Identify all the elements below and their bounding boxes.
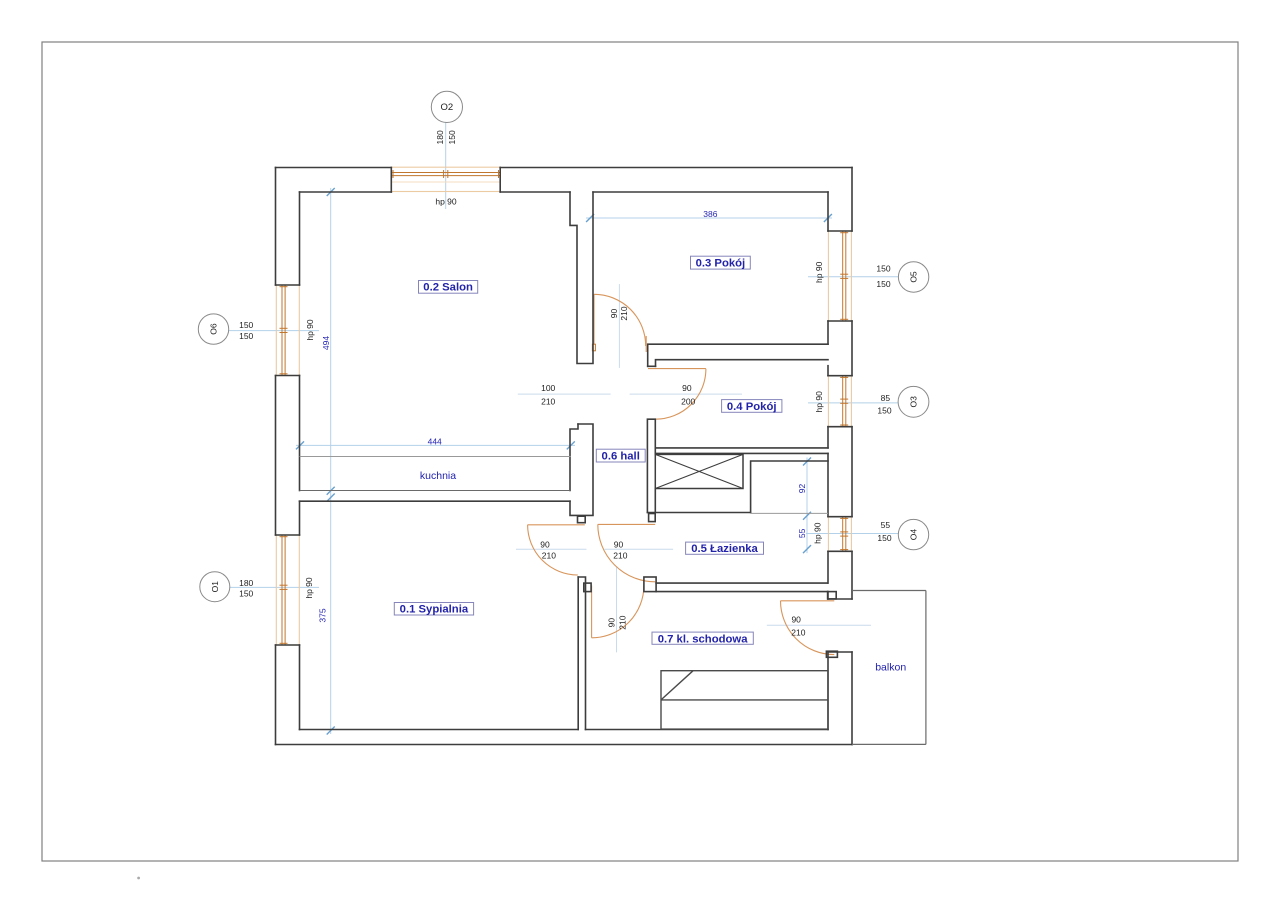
svg-text:hp 90: hp 90 — [812, 522, 822, 544]
svg-text:kuchnia: kuchnia — [420, 470, 456, 482]
window O3 center line — [808, 402, 898, 404]
svg-text:375: 375 — [318, 608, 328, 622]
label 0.6 hall — [596, 449, 645, 462]
wall kuchnia/Sypialnia bottom face — [300, 500, 571, 502]
svg-text:hp 90: hp 90 — [435, 197, 457, 207]
door dim line 90/210 (kl. schodowa door) — [616, 567, 618, 652]
dim line 92 — [806, 458, 808, 520]
door Lazienka leaf — [598, 523, 655, 525]
stairs — [661, 671, 828, 729]
svg-text:O1: O1 — [210, 581, 220, 593]
wall hall/0.4 strip — [647, 419, 655, 512]
door 0.4 Pokoj arc — [656, 369, 706, 419]
window O2 center line — [445, 123, 447, 210]
dim line 444 (kuchnia width) — [296, 444, 575, 446]
exterior top wall outer face — [276, 167, 392, 169]
right wall inner face — [827, 192, 829, 231]
label 0.3 Pokoj — [691, 256, 751, 269]
svg-text:210: 210 — [541, 397, 555, 407]
door jamb cap hall stub — [578, 516, 586, 523]
door 0.3 Pokoj strike jamb tick — [645, 336, 647, 352]
svg-text:O2: O2 — [441, 102, 454, 113]
door balkon leaf — [781, 600, 835, 602]
svg-text:hp 90: hp 90 — [304, 577, 314, 599]
svg-text:O4: O4 — [909, 529, 919, 541]
svg-text:180: 180 — [435, 130, 445, 144]
door 0.3 Pokoj arc — [594, 294, 646, 346]
svg-text:0.4 Pokój: 0.4 Pokój — [727, 401, 777, 413]
svg-text:150: 150 — [239, 331, 253, 341]
door kl. schodowa leaf — [591, 586, 593, 638]
door jamb block kl.schodowa top — [584, 583, 591, 592]
svg-text:0.1 Sypialnia: 0.1 Sypialnia — [400, 604, 469, 616]
door Lazienka arc — [598, 524, 655, 581]
exterior bottom wall outer face — [276, 744, 853, 746]
svg-text:90: 90 — [682, 383, 692, 393]
door balkon arc — [781, 601, 835, 655]
window O5 center line — [808, 276, 899, 278]
svg-text:90: 90 — [614, 539, 624, 549]
window O2 (top wall, 180/150) — [391, 167, 500, 191]
door 0.4 Pokoj leaf — [648, 368, 706, 370]
svg-text:200: 200 — [681, 397, 695, 407]
window O1 (left wall, 180/150) — [276, 535, 299, 645]
window O4 (right wall, 55/150) — [828, 517, 851, 552]
door 0.3 Pokoj hinge jamb block — [592, 344, 595, 351]
svg-text:150: 150 — [239, 589, 253, 599]
circle O2 — [431, 91, 462, 122]
door Sypialnia arc — [528, 525, 578, 575]
window O6 (left wall, 150/150) — [276, 285, 299, 376]
svg-text:hp 90: hp 90 — [814, 391, 824, 413]
wall 0.4 bottom band — [655, 447, 828, 449]
exterior top wall inner face — [300, 191, 392, 193]
label 0.1 Sypialnia — [394, 603, 473, 616]
svg-text:90: 90 — [607, 618, 617, 628]
svg-text:150: 150 — [877, 533, 891, 543]
wall Sypialnia/kl.schodowa divider — [578, 577, 585, 730]
svg-text:O5: O5 — [909, 271, 919, 283]
door jamb cap hall/Lazienka — [649, 514, 656, 522]
dim line 386 (0.3 Pokoj width) — [586, 217, 832, 219]
top wall window jambs — [390, 168, 392, 193]
window O3 (right wall, 85/150) — [828, 376, 851, 427]
thin gray line kuchnia top boundary — [300, 456, 571, 458]
svg-text:150: 150 — [876, 279, 890, 289]
svg-text:hp 90: hp 90 — [814, 261, 824, 283]
circle O5 — [898, 262, 928, 292]
wall 0.3/0.4 divider — [648, 344, 828, 366]
window O4 center line — [806, 533, 898, 535]
thin gray line Lazienka top right — [751, 512, 828, 514]
svg-text:150: 150 — [877, 406, 891, 416]
circle O1 — [200, 572, 230, 602]
label 0.5 Lazienka — [686, 542, 764, 554]
dimension slash ticks — [296, 188, 832, 735]
svg-text:balkon: balkon — [875, 662, 906, 674]
door Sypialnia leaf — [528, 524, 585, 526]
door dim line 90/210 (balkon door) — [767, 624, 871, 626]
svg-text:55: 55 — [797, 528, 807, 538]
door dim line 90/210 (Sypialnia door) — [516, 548, 587, 550]
svg-text:O3: O3 — [909, 396, 919, 408]
wall Lazienka bottom — [656, 582, 828, 584]
left wall window jambs — [276, 284, 300, 286]
label 0.7 kl. schodowa — [652, 632, 753, 644]
circle O6 — [198, 314, 228, 344]
label 0.2 Salon — [419, 281, 478, 294]
wall hall stub — [570, 424, 593, 515]
exterior bottom wall inner face — [300, 729, 579, 731]
label 0.4 Pokoj — [722, 400, 782, 413]
svg-text:0.7 kl. schodowa: 0.7 kl. schodowa — [658, 633, 748, 645]
kuchnia wall top face (thin) — [300, 490, 571, 492]
svg-text:150: 150 — [447, 130, 457, 144]
svg-text:210: 210 — [619, 306, 629, 320]
door dim line 90/200 (0.4 Pokoj door) — [630, 393, 742, 395]
door dim line 90/210 (0.3 Pokoj door) — [618, 284, 620, 368]
dim line 55 — [806, 512, 808, 553]
svg-text:O6: O6 — [209, 323, 219, 335]
dim line 375 (Sypialnia height) — [330, 494, 332, 734]
svg-text:210: 210 — [613, 551, 627, 561]
left wall outer face — [275, 168, 277, 286]
wall Salon/0.3 divider upper — [570, 192, 593, 364]
window O1 center line — [230, 586, 319, 588]
left wall inner face — [299, 192, 301, 285]
svg-text:150: 150 — [239, 320, 253, 330]
svg-text:90: 90 — [609, 309, 619, 319]
svg-text:444: 444 — [428, 436, 442, 446]
circle O4 — [898, 519, 928, 549]
balkon outline — [852, 591, 926, 745]
door jamb block balkon top — [828, 592, 837, 599]
door jamb block Lazienka bottom left — [644, 577, 656, 592]
right wall outer face — [851, 168, 853, 232]
circle O3 — [898, 386, 929, 417]
ventilation shaft box — [655, 454, 743, 488]
svg-text:55: 55 — [881, 520, 891, 530]
dim line 494 (Salon height) — [330, 188, 332, 494]
svg-text:90: 90 — [540, 539, 550, 549]
svg-text:90: 90 — [791, 615, 801, 625]
svg-text:0.3 Pokój: 0.3 Pokój — [696, 257, 746, 269]
door dim line 100/210 (Salon door) — [518, 393, 611, 395]
window O5 (right wall, 150/150) — [828, 231, 851, 321]
svg-text:150: 150 — [876, 264, 890, 274]
svg-text:210: 210 — [618, 615, 628, 629]
svg-text:386: 386 — [703, 209, 717, 219]
svg-text:0.2 Salon: 0.2 Salon — [423, 282, 473, 294]
niche (92) outline — [751, 461, 828, 513]
door dim line 90/210 (Lazienka door) — [604, 548, 673, 550]
wall Lazienka top — [647, 512, 750, 514]
right wall window/door jambs — [828, 230, 852, 232]
svg-text:0.5 Łazienka: 0.5 Łazienka — [691, 543, 758, 555]
svg-text:0.6 hall: 0.6 hall — [602, 451, 640, 463]
svg-text:210: 210 — [542, 551, 556, 561]
door kl. schodowa arc — [592, 586, 644, 638]
svg-text:hp 90: hp 90 — [305, 319, 315, 341]
svg-text:92: 92 — [797, 484, 807, 494]
door 0.3 Pokoj leaf — [593, 294, 595, 350]
door jamb block balkon bottom — [826, 651, 837, 657]
svg-text:180: 180 — [239, 578, 253, 588]
svg-text:100: 100 — [541, 383, 555, 393]
svg-text:494: 494 — [321, 336, 331, 350]
window O6 center line — [228, 330, 319, 332]
svg-text:85: 85 — [881, 393, 891, 403]
svg-text:210: 210 — [791, 628, 805, 638]
